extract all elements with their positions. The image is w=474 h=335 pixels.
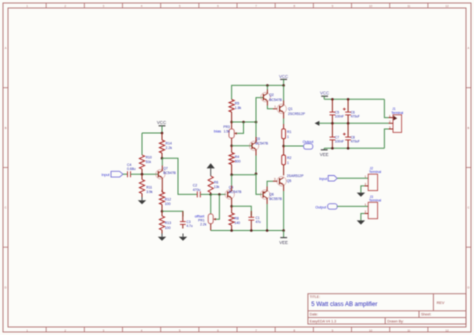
wire wiper up: [237, 122, 244, 133]
wire Q1 collector up: [283, 85, 285, 105]
resistor R14 2.2k: [159, 133, 172, 158]
connector J3 Terminal (output): [364, 195, 381, 219]
wire Q3 emitter column to Q6 base: [256, 174, 262, 195]
svg-text:5 Watt class AB amplifier: 5 Watt class AB amplifier: [311, 302, 377, 308]
wire input port to J2: [337, 177, 368, 179]
svg-text:A: A: [5, 46, 7, 50]
node R6 bottom / C2: [209, 193, 212, 196]
svg-text:470u: 470u: [193, 188, 201, 192]
wire PSU mid rail: [319, 122, 388, 124]
node C6 top: [347, 98, 350, 101]
svg-text:VEE: VEE: [279, 240, 288, 245]
transistor Q2: [261, 92, 283, 102]
svg-text:1: 1: [287, 135, 289, 139]
node R10/R11/base: [141, 173, 144, 176]
svg-text:100: 100: [165, 202, 171, 206]
transistor Q5: [277, 174, 304, 186]
resistor R2 1: [282, 146, 292, 175]
svg-text:2.2k: 2.2k: [166, 146, 173, 150]
node wiper join: [242, 121, 245, 124]
svg-text:R14: R14: [166, 142, 172, 146]
net flag arrow (R6 top): [207, 163, 215, 176]
power flag VCC (input stage): [157, 120, 166, 133]
node R4 bottom / Q4 collector: [230, 173, 233, 176]
svg-text:13k: 13k: [214, 185, 220, 189]
svg-text:11: 11: [407, 4, 410, 8]
svg-text:1.5k: 1.5k: [224, 130, 231, 134]
wire input port to C4: [123, 173, 127, 175]
wire Q3 collector up: [255, 122, 257, 142]
svg-text:2SCR512P: 2SCR512P: [288, 112, 306, 116]
svg-text:R6: R6: [214, 180, 218, 184]
svg-text:R4: R4: [235, 155, 239, 159]
power flag VCC (PSU): [320, 91, 329, 100]
svg-text:EasyEDA V4 1.3: EasyEDA V4 1.3: [310, 319, 337, 323]
svg-text:3.9k: 3.9k: [146, 190, 153, 194]
node pot bottom / Q3 base: [230, 145, 233, 148]
resistor R11 3.9k: [139, 174, 153, 197]
wire Q3 emitter down: [255, 149, 257, 173]
wire Q4 emitter down: [231, 198, 233, 206]
node Q2 base column join: [255, 121, 258, 124]
wire Q7 emitter: [161, 178, 163, 192]
wire Q2 collector up: [266, 85, 268, 93]
svg-text:bias: bias: [214, 129, 221, 134]
wire bias row: [232, 121, 256, 123]
wire pot bottom to Q3 base: [232, 145, 252, 147]
wire Q4 collector up: [231, 175, 233, 191]
wire Q2 emitter to Q1 base: [267, 101, 277, 109]
wire pin1 riser: [384, 99, 388, 117]
capacitor C7 100nF: [330, 123, 344, 148]
wire to Q4 base: [211, 193, 226, 195]
node bias top: [230, 121, 233, 124]
transistor Q1: [277, 104, 306, 116]
svg-text:100nF: 100nF: [335, 140, 344, 144]
node Q4 emitter: [230, 205, 233, 208]
svg-text:BC547B: BC547B: [255, 142, 268, 146]
svg-text:51k: 51k: [146, 160, 152, 164]
node output: [282, 145, 285, 148]
svg-text:1: 1: [287, 161, 289, 165]
svg-text:Input: Input: [319, 177, 327, 181]
wire R12 node to C3: [162, 211, 183, 216]
wire VEE rail: [211, 230, 284, 232]
input port Input: [102, 171, 124, 177]
resistor R6 13k: [208, 176, 220, 194]
svg-text:100: 100: [165, 226, 171, 230]
resistor R5 1.8k: [229, 100, 242, 122]
capacitor C6 470uF: [343, 99, 360, 123]
svg-text:B: B: [467, 126, 469, 130]
capacitor C2 470u: [193, 184, 201, 198]
svg-text:Date:: Date:: [310, 312, 319, 316]
svg-text:12: 12: [445, 4, 449, 8]
resistor R12 100: [159, 190, 171, 211]
svg-text:BC547B: BC547B: [229, 190, 242, 194]
resistor R1 1: [282, 124, 292, 146]
wire output node to port: [284, 145, 304, 147]
net label bias: [214, 129, 221, 134]
connector J2 Terminal (input): [364, 167, 381, 191]
svg-text:Input: Input: [102, 173, 110, 177]
node R8 / VEE rail: [230, 229, 233, 232]
node Q2 collector rail: [266, 84, 269, 87]
transistor Q7: [156, 166, 177, 179]
svg-text:0.68u: 0.68u: [127, 167, 136, 171]
wire pin3 drop: [384, 129, 388, 148]
wire Q6 emitter to Q5 base: [267, 181, 277, 191]
svg-text:R8: R8: [234, 217, 238, 221]
svg-text:500: 500: [235, 159, 241, 163]
wire C4 to base node: [131, 173, 158, 175]
wire VAS top rail: [232, 85, 284, 99]
resistor R10 51k: [139, 155, 152, 174]
resistor R4 500: [229, 146, 241, 175]
svg-text:R5: R5: [235, 102, 239, 106]
wire down to R10: [141, 133, 143, 155]
capacitor C3 4.7u: [180, 211, 193, 228]
svg-text:VCC: VCC: [320, 91, 329, 96]
capacitor C5 100nF: [330, 99, 344, 123]
svg-text:BC547B: BC547B: [163, 171, 176, 175]
capacitor C4 0.68u: [127, 163, 136, 177]
svg-text:100nF: 100nF: [335, 115, 344, 119]
wire VCC node to R10 branch: [142, 132, 163, 135]
svg-text:BC557B: BC557B: [269, 197, 282, 201]
net label offset: [195, 213, 206, 218]
svg-text:2SAR512P: 2SAR512P: [287, 174, 305, 178]
svg-text:B: B: [5, 126, 7, 130]
svg-text:A: A: [467, 46, 469, 50]
potentiometer PR3 bias: [223, 122, 236, 146]
svg-text:Drawn By:: Drawn By:: [387, 319, 404, 323]
power flag VEE (amp): [279, 231, 288, 245]
wire PSU bottom rail: [324, 147, 384, 149]
node C8 bottom: [347, 147, 350, 150]
node wiper riser: [218, 193, 221, 196]
potentiometer PR1 offset: [198, 194, 216, 230]
node Q6 / VEE rail: [266, 229, 269, 232]
svg-text:offset: offset: [195, 213, 206, 218]
node Q3 emitter / cross-wire: [255, 173, 258, 176]
node C5 bottom: [331, 122, 334, 125]
svg-text:BC547B: BC547B: [269, 98, 282, 102]
svg-text:Terminal: Terminal: [391, 111, 403, 115]
wire J3 pin2 to ground: [361, 214, 365, 221]
svg-text:Q6: Q6: [269, 192, 274, 196]
svg-text:470uF: 470uF: [351, 140, 360, 144]
resistor R8 140: [229, 206, 240, 230]
wire collector node to feedback: [162, 158, 197, 194]
wire Q1 emitter down: [283, 112, 285, 124]
node R12 bottom: [161, 210, 164, 213]
node C1 / VEE rail: [250, 229, 253, 232]
svg-text:11: 11: [407, 328, 410, 332]
svg-text:Q5: Q5: [287, 179, 292, 183]
transistor Q6: [261, 190, 283, 201]
svg-text:TITLE:: TITLE:: [310, 295, 321, 299]
connector J1 Terminal (power): [389, 107, 404, 132]
wire Q6 collector down: [266, 198, 268, 231]
wire Q2 base: [256, 98, 264, 122]
svg-text:PR3: PR3: [223, 125, 230, 129]
wire PSU top rail: [324, 98, 384, 100]
wire C2 to R6 node: [200, 193, 210, 195]
svg-text:1.8k: 1.8k: [235, 106, 242, 110]
wire Q5 collector down: [283, 185, 285, 231]
wire cross connection: [232, 174, 256, 176]
svg-text:10: 10: [369, 4, 373, 8]
node C7 bottom: [331, 147, 334, 150]
svg-text:R10: R10: [146, 156, 152, 160]
svg-text:Sheet:: Sheet:: [421, 312, 431, 316]
svg-text:R1: R1: [287, 130, 291, 134]
node Q5 / VEE rail: [282, 229, 285, 232]
svg-text:47u: 47u: [256, 220, 262, 224]
ground under J3: [357, 220, 365, 224]
svg-text:VCC: VCC: [157, 120, 166, 125]
pin number 3 (Q5 base): [274, 177, 276, 181]
transistor Q3: [249, 137, 268, 151]
svg-text:2.2k: 2.2k: [200, 223, 207, 227]
svg-text:Q1: Q1: [288, 107, 293, 111]
wire J2 pin2 to ground: [361, 186, 365, 193]
svg-text:R11: R11: [146, 186, 152, 190]
wire emitter node to C1: [232, 206, 252, 216]
ground under R13: [158, 234, 166, 241]
svg-text:470uF: 470uF: [351, 115, 360, 119]
power flag VEE (PSU): [320, 148, 329, 157]
output port Output (amp): [303, 140, 314, 149]
svg-text:Q2: Q2: [269, 93, 274, 97]
svg-text:R2: R2: [287, 156, 291, 160]
ground under C3: [179, 234, 187, 241]
node Q1 collector / VCC: [282, 84, 285, 87]
power flag VCC (output stage): [279, 74, 288, 86]
ground under R11: [138, 197, 146, 204]
wire Q7 collector: [161, 158, 163, 171]
ground arrow (0V reference): [315, 121, 320, 126]
transistor Q4: [225, 185, 242, 199]
title block: [308, 294, 466, 324]
wire wiper to base node: [216, 194, 220, 219]
svg-text:Output: Output: [315, 205, 326, 209]
svg-text:10: 10: [369, 328, 373, 332]
capacitor C1 47u: [248, 211, 261, 231]
capacitor C8 470uF: [343, 123, 360, 148]
ground under J2: [357, 193, 365, 197]
svg-text:R12: R12: [165, 197, 171, 201]
node Q7 collector / R14: [161, 157, 164, 160]
svg-text:Terminal: Terminal: [369, 170, 381, 174]
node C5 top: [331, 98, 334, 101]
svg-text:140: 140: [234, 221, 240, 225]
wire output port to J3: [337, 205, 368, 207]
node C6 bottom: [347, 122, 350, 125]
svg-text:12: 12: [445, 328, 449, 332]
svg-text:Q7: Q7: [163, 166, 168, 170]
svg-text:Terminal: Terminal: [369, 198, 381, 202]
svg-text:VEE: VEE: [320, 152, 329, 157]
output port Output (connector side): [315, 204, 337, 210]
resistor R13 100: [159, 211, 171, 233]
svg-text:R13: R13: [165, 221, 171, 225]
svg-text:4.7u: 4.7u: [186, 224, 192, 228]
input port Input (connector side): [319, 176, 337, 182]
svg-text:REV: REV: [437, 301, 445, 305]
pin number 1 (Q1 base): [274, 105, 276, 109]
svg-text:VCC: VCC: [279, 74, 288, 79]
